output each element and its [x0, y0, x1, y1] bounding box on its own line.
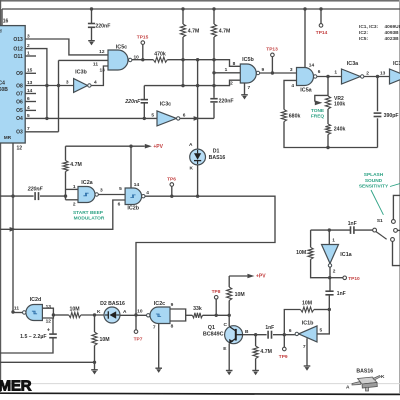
wire O13 to IC5c pin12: [25, 39, 108, 55]
junction rail/pin14: [303, 7, 306, 10]
wire O7 stub: [25, 93, 36, 95]
pin 7 label IC5b: [248, 85, 251, 91]
svg-text:O3: O3: [16, 130, 23, 136]
ground lower left: [91, 370, 98, 375]
pin 1 label IC2a: [73, 184, 76, 190]
svg-text:IC2c: IC2c: [154, 301, 165, 307]
svg-text:470k: 470k: [154, 52, 166, 58]
pin 7 label IC2c: [153, 325, 156, 331]
svg-text:SPLASH: SPLASH: [364, 172, 384, 178]
svg-text:7: 7: [248, 85, 251, 91]
svg-text:TP10: TP10: [348, 276, 360, 282]
svg-text:1nF: 1nF: [348, 221, 357, 227]
svg-text:+: +: [47, 328, 50, 334]
pin 8 label IC2c: [171, 323, 174, 329]
resistor 470k: [153, 52, 167, 63]
svg-text:IC3a: IC3a: [347, 61, 359, 67]
svg-text:START BEEP: START BEEP: [73, 210, 104, 216]
ground IC2c: [155, 368, 162, 373]
wire IC3c output: [180, 117, 214, 119]
resistor 10M vertical: [92, 332, 110, 346]
wire 10M-4 lower: [94, 346, 96, 363]
pin 4 label IC2b: [146, 190, 149, 196]
wire IC2c pin7 stem: [158, 324, 160, 369]
capacitor 1nF output: [325, 291, 345, 297]
testpoint TP14: [316, 24, 328, 36]
inverter IC1b: [295, 320, 317, 342]
junction arrow MR/pin6 line: [10, 227, 16, 232]
svg-text:O4: O4: [16, 116, 23, 122]
svg-text:16: 16: [3, 18, 9, 24]
svg-text:11: 11: [14, 305, 19, 311]
wire loop to 33k: [186, 314, 193, 316]
pin 6 label IC1b: [289, 328, 292, 334]
junction rail/220nF: [90, 7, 93, 10]
pin C label Q1: [224, 322, 228, 328]
svg-text:IC1a: IC1a: [340, 252, 352, 258]
wire 4.7M-4 bottom: [65, 172, 67, 200]
svg-text:1.5 – 2.2µF: 1.5 – 2.2µF: [20, 334, 46, 340]
svg-text:IC3f: IC3f: [393, 61, 400, 67]
resistor 10M parallel: [296, 247, 313, 259]
svg-text:IC5:: IC5:: [359, 36, 368, 42]
svg-text:TP7: TP7: [134, 337, 143, 343]
svg-text:SOUND: SOUND: [365, 178, 383, 184]
svg-text:12: 12: [99, 49, 105, 55]
capacitor 220nF input: [27, 187, 44, 200]
svg-text:12: 12: [17, 146, 23, 152]
junction rail/4.7M-1: [181, 7, 184, 10]
pin 6 label IC3c: [183, 112, 186, 118]
pin 11 label IC5c: [93, 61, 98, 67]
junction pin2/D1: [196, 84, 199, 87]
pin 14 label IC2b: [134, 182, 140, 188]
svg-text:A: A: [189, 142, 193, 148]
junction TP15: [141, 58, 144, 61]
svg-text:O11: O11: [14, 54, 23, 60]
svg-text:TONE: TONE: [311, 108, 325, 114]
svg-text:7: 7: [153, 325, 156, 331]
svg-text:9: 9: [171, 302, 174, 308]
wire 680k bottom to bus: [284, 122, 378, 148]
svg-text:TP13: TP13: [266, 47, 278, 53]
junction D1/out: [196, 195, 199, 198]
svg-text:IC5b: IC5b: [242, 57, 254, 63]
nand IC2b: [125, 188, 145, 211]
svg-text:+PV: +PV: [153, 144, 163, 150]
junction arrow IC3c/D1 line: [194, 116, 200, 121]
wire IC1b input: [317, 310, 329, 334]
capacitor 1.5-2.2uF: [20, 328, 57, 340]
pin 13 label IC3f: [380, 71, 386, 77]
wire 4.7M-1 drop: [182, 9, 184, 86]
svg-text:O6: O6: [16, 99, 23, 105]
svg-text:IC2d: IC2d: [30, 297, 42, 303]
wire +PV stub Q1: [229, 275, 247, 277]
svg-text:4.7M: 4.7M: [260, 349, 272, 355]
svg-text:3: 3: [290, 67, 293, 73]
svg-text:IC4: IC4: [0, 81, 5, 87]
wire O5 stub: [25, 109, 36, 111]
svg-text:K: K: [97, 309, 101, 315]
pin 2 label IC1a: [333, 268, 336, 274]
inverter IC3f clipped: [390, 61, 400, 84]
pin 13 label IC2d: [46, 304, 52, 310]
resistor 680k: [281, 110, 300, 122]
wire IC2d output: [13, 312, 22, 314]
pin 5 label IC1b: [320, 328, 323, 334]
testpoint TP7: [134, 330, 143, 343]
svg-text:IC1b: IC1b: [302, 320, 314, 326]
svg-text:13: 13: [380, 71, 386, 77]
wire 10M-3 leads: [311, 230, 329, 278]
wire VR2 drop: [327, 77, 329, 97]
wire 390pF bottom lead: [377, 118, 379, 147]
svg-text:4: 4: [291, 83, 294, 89]
inverter IC3b: [74, 69, 92, 92]
parts list IC5: [359, 36, 399, 42]
wire IC5c output line: [132, 60, 240, 67]
wire IC5b pin7 ground stem: [244, 83, 246, 95]
svg-text:7: 7: [303, 344, 306, 350]
junction cap1/bus: [143, 117, 146, 120]
svg-text:100k: 100k: [334, 101, 345, 107]
page border top: [0, 0, 400, 2]
wire +V top rail: [2, 8, 400, 10]
switch S1 lever: [376, 232, 387, 240]
pin 13 label IC5c: [99, 68, 105, 74]
wire 680k input: [284, 80, 297, 109]
IC4 4060B counter: [0, 26, 33, 143]
svg-text:MER: MER: [0, 378, 32, 395]
title rule bottom: [0, 393, 400, 394]
wire IC2c input loop: [170, 309, 186, 321]
diode D1 BAS16: [189, 142, 225, 171]
junction +PV/IC2b14: [129, 145, 132, 148]
svg-text:240k: 240k: [334, 126, 346, 132]
page border right: [399, 0, 400, 393]
svg-text:O8: O8: [16, 83, 23, 89]
junction MR/cap3 line: [11, 194, 14, 197]
svg-text:MODULATOR: MODULATOR: [74, 216, 105, 222]
pin 1 label IC3a: [334, 70, 337, 76]
pin 9 label IC5b: [262, 67, 265, 73]
svg-text:33k: 33k: [193, 306, 202, 312]
svg-text:Q1: Q1: [208, 325, 215, 331]
junction VR2 top: [326, 75, 329, 78]
capacitor 390pF: [374, 113, 399, 119]
svg-text:14: 14: [134, 182, 140, 188]
svg-text:IC3b: IC3b: [75, 69, 87, 75]
nand IC2d: [23, 297, 43, 320]
switch S1 pole: [373, 218, 383, 232]
wire IC1a output: [328, 267, 331, 309]
junction TP8: [215, 314, 218, 317]
nand IC5a: [297, 68, 317, 94]
svg-text:12: 12: [46, 319, 52, 325]
svg-text:6: 6: [183, 112, 186, 118]
svg-text:1: 1: [334, 70, 337, 76]
svg-text:IC5a: IC5a: [300, 88, 312, 94]
pin 3 label IC2a: [100, 188, 103, 194]
svg-text:+PV: +PV: [256, 274, 266, 280]
wire left ground rail: [0, 361, 95, 363]
wire contact2 right: [397, 229, 400, 231]
wire MR line pin12: [12, 143, 14, 312]
pin 2 label IC3a: [366, 71, 369, 77]
svg-text:3: 3: [66, 80, 69, 86]
svg-text:TP6: TP6: [167, 176, 176, 182]
wire IC5b output: [260, 72, 297, 74]
svg-text:4023B: 4023B: [385, 36, 400, 42]
svg-text:D1: D1: [213, 148, 220, 154]
wire IC2a pin1: [66, 188, 79, 190]
resistor 4.7M first: [180, 24, 199, 37]
svg-text:390pF: 390pF: [384, 113, 399, 119]
inverter IC3c: [157, 102, 180, 126]
wire IC3a output: [364, 76, 390, 78]
wire IC2b output to Q1 area: [136, 196, 275, 330]
wire +PV feed line: [66, 145, 145, 147]
switch S1 contact 1: [392, 220, 396, 224]
svg-text:680k: 680k: [289, 113, 301, 119]
svg-text:10M: 10M: [235, 292, 245, 298]
svg-text:O5: O5: [16, 108, 23, 114]
wire 10M-5 to Q1: [228, 301, 230, 327]
svg-text:6: 6: [118, 202, 121, 208]
pin 4 label IC5a: [291, 83, 294, 89]
pin 2 label IC2a: [73, 201, 76, 207]
page border left: [0, 0, 2, 392]
nand IC2a: [78, 180, 98, 202]
svg-text:BAS16: BAS16: [209, 155, 226, 161]
svg-text:TP15: TP15: [137, 34, 149, 40]
wire feedback node: [284, 310, 300, 335]
title text MER: [0, 378, 32, 395]
ground Q1 emitter: [226, 371, 233, 376]
junction 470k/D1: [196, 58, 199, 61]
svg-text:1: 1: [225, 67, 228, 73]
pin 12 label IC5c: [99, 49, 105, 55]
wire O6 stub: [25, 101, 36, 103]
wire D1 column upper: [197, 60, 199, 149]
svg-text:5: 5: [320, 328, 323, 334]
pin 13 wire IC5c: [91, 66, 108, 86]
wire contact3 down: [393, 241, 400, 265]
svg-text:1: 1: [73, 184, 76, 190]
svg-text:6: 6: [318, 69, 321, 75]
svg-text:6: 6: [289, 328, 292, 334]
svg-text:D2 BAS16: D2 BAS16: [100, 301, 125, 307]
supply +PV arrow 2: [247, 274, 266, 280]
svg-text:4.7M: 4.7M: [188, 29, 200, 35]
svg-text:10M: 10M: [296, 250, 306, 256]
ground 4.7M-3: [252, 371, 259, 376]
pin 10 label IC2c: [137, 308, 143, 314]
junction TP6: [170, 195, 173, 198]
svg-text:4060B: 4060B: [0, 87, 8, 93]
svg-text:IC2a: IC2a: [81, 180, 93, 186]
svg-text:Vdd: Vdd: [0, 29, 2, 34]
pin 11 label IC2d: [14, 305, 19, 311]
svg-text:4.7M: 4.7M: [70, 162, 82, 168]
wire O9 stub: [25, 72, 36, 74]
inverter IC1a: [322, 245, 353, 268]
wire O3 across: [25, 131, 58, 133]
pin 9 label IC2c: [171, 302, 174, 308]
svg-text:IC2:: IC2:: [359, 30, 368, 36]
pin 16 label: [3, 18, 9, 24]
wire cap1 top lead: [143, 86, 145, 100]
wire IC2b pin14 drop: [130, 146, 132, 188]
junction 470k/4.7M-1: [181, 58, 184, 61]
junction bus/O12: [45, 117, 48, 120]
wire 10M-4 upper: [94, 315, 96, 332]
svg-text:E: E: [223, 346, 227, 352]
wire gnd stem ll: [94, 362, 96, 369]
wire TP15 stem: [142, 44, 144, 59]
svg-text:10M: 10M: [100, 337, 110, 343]
svg-text:K: K: [381, 374, 385, 380]
pin 5 label IC3c: [151, 113, 154, 119]
svg-text:A: A: [123, 309, 127, 315]
wire vertical O3 to pin11: [58, 60, 60, 131]
capacitor 220nF decoupling: [88, 24, 111, 30]
svg-text:IC5c: IC5c: [116, 44, 127, 50]
wire IC2a output: [98, 194, 125, 196]
svg-text:1: 1: [332, 238, 335, 244]
nand IC5c: [108, 44, 132, 70]
svg-text:O9: O9: [16, 71, 23, 77]
junction MR/IC2d out: [11, 310, 14, 313]
wire loop to 10M: [53, 314, 68, 316]
wire Q1 base line: [243, 334, 295, 336]
svg-text:4093B: 4093B: [385, 30, 400, 36]
wire IC5c pin11: [59, 59, 109, 61]
junction node10: [134, 313, 137, 316]
label SPLASH SOUND SENSITIVITY: [359, 172, 389, 190]
wire +PV to 10M-5: [228, 276, 230, 287]
switch S1 contact 2: [394, 229, 398, 233]
resistor 10M collector: [227, 287, 245, 301]
resistor 4.7M emitterbias: [253, 346, 272, 359]
svg-text:IC3c: IC3c: [160, 102, 171, 108]
wire IC2b pin6 loop: [0, 200, 125, 229]
svg-text:IC2b: IC2b: [127, 205, 139, 211]
nand IC5b: [240, 57, 259, 83]
pin 12 label IC2d: [46, 319, 52, 325]
junction TP13: [271, 71, 274, 74]
wire VR2 to 240k: [327, 109, 329, 124]
wire TP13 stem: [271, 57, 273, 73]
capacitor 1nF top: [348, 221, 357, 234]
wire D1 column lower: [197, 165, 199, 196]
wire O11 stub: [25, 55, 36, 57]
pin 3 label IC5a: [290, 67, 293, 73]
svg-text:C: C: [224, 322, 228, 328]
nand IC2c: [147, 301, 171, 324]
svg-text:TP9: TP9: [279, 354, 288, 360]
junction rail/TP14: [319, 7, 322, 10]
capacitor 1nF coupling: [265, 325, 274, 339]
wire IC2d input loop: [42, 308, 53, 318]
svg-text:O13: O13: [13, 37, 23, 43]
wire 10M-6 to column: [314, 309, 329, 311]
BAS16 package drawing: [346, 368, 385, 391]
junction IC2d loop: [52, 313, 55, 316]
wire cap15 top lead: [52, 319, 54, 334]
pin 14 label IC5a: [309, 62, 315, 68]
wire cap1 bottom lead: [143, 103, 145, 118]
wire cap drop: [91, 9, 93, 40]
svg-text:1nF: 1nF: [337, 291, 346, 297]
junction collector node: [228, 314, 231, 317]
svg-text:3: 3: [100, 188, 103, 194]
junction TP9 node: [283, 333, 286, 336]
junction 390pF top: [376, 75, 379, 78]
wire IC5b pin2: [144, 80, 240, 85]
wire 240k bottom: [327, 135, 329, 148]
pin 5 label IC2b: [119, 186, 122, 192]
svg-text:220nF: 220nF: [95, 24, 110, 30]
wire IC5a output: [317, 76, 342, 78]
resistor 33k: [192, 306, 202, 318]
wire D2 to IC2c: [120, 314, 146, 316]
testpoint TP8: [212, 289, 221, 299]
junction O3-line/O8: [57, 84, 60, 87]
transistor Q1 BC849C: [203, 325, 249, 352]
pin 8 label IC5b: [233, 61, 236, 67]
svg-text:2: 2: [73, 201, 76, 207]
resistor 240k: [325, 124, 345, 135]
svg-text:S1: S1: [377, 218, 383, 224]
resistor 10M feedback low: [301, 300, 314, 312]
wire TP14 stem: [320, 9, 322, 24]
wire IC5b pin1: [214, 72, 240, 74]
junction cap3 node: [64, 194, 67, 197]
pin 10 label IC5c: [134, 54, 140, 60]
wire IC1a input drop: [328, 230, 330, 244]
wire TP6 stem: [171, 186, 173, 196]
pin 12 label IC4: [17, 146, 23, 152]
svg-text:BC849C: BC849C: [203, 331, 224, 337]
wire IC1b pin7 stem: [306, 338, 308, 366]
svg-text:220nF: 220nF: [124, 99, 141, 105]
pin 4 label IC3b: [94, 80, 97, 86]
wire 220nF-3 line: [0, 195, 66, 197]
svg-text:10M: 10M: [302, 300, 312, 306]
wire 390pF top lead: [377, 77, 379, 112]
wire IC4 pin16 drop: [1, 9, 3, 26]
svg-text:220nF: 220nF: [219, 98, 234, 104]
leader line to S1: [371, 190, 383, 215]
pin 7 label IC1b: [303, 344, 306, 350]
ground below 220nF: [88, 41, 95, 46]
wire TP8 stem: [215, 299, 217, 315]
junction O12/O8: [45, 84, 48, 87]
svg-text:4.7M: 4.7M: [219, 29, 231, 35]
wire IC5a pin14 Vdd drop: [304, 9, 306, 68]
wire contact1 up: [393, 195, 400, 219]
wire TP10 stub: [330, 277, 343, 279]
svg-text:O7: O7: [16, 91, 23, 97]
wire 4.7M-2 drop: [213, 9, 215, 118]
testpoint TP13: [266, 47, 278, 57]
svg-text:5: 5: [151, 113, 154, 119]
svg-text:A: A: [346, 385, 350, 391]
switch S1 contact 3: [391, 238, 395, 242]
junction 470k/4.7M-2: [212, 58, 215, 61]
